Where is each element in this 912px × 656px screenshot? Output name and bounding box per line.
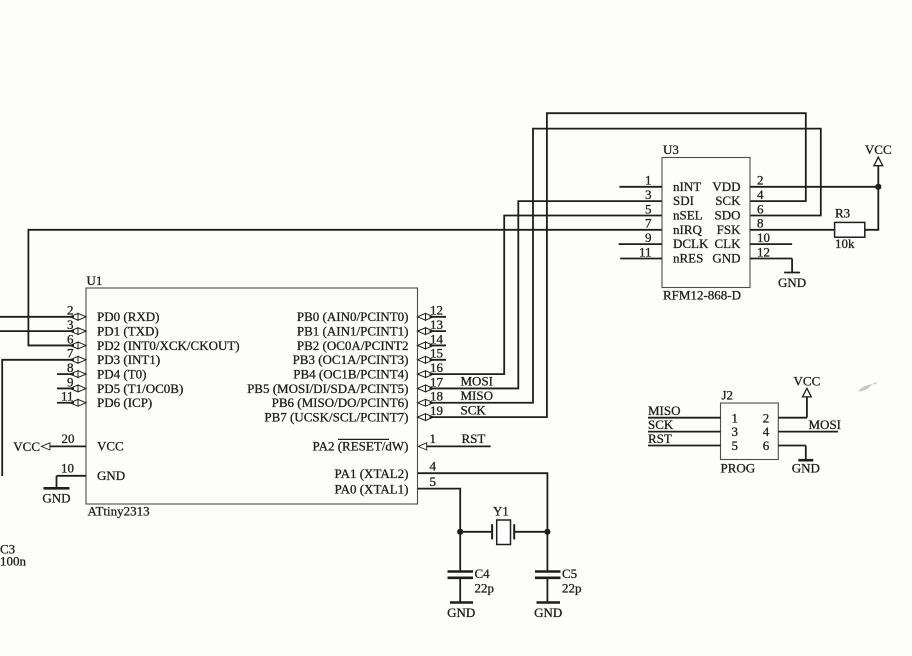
wire R3 to VCC node [865,187,879,230]
svg-text:GND: GND [534,605,562,620]
U1 pin 8 number [67,360,74,375]
U1 pin 18 number [430,389,443,404]
svg-text:PB5 (MOSI/DI/SDA/PCINT5): PB5 (MOSI/DI/SDA/PCINT5) [247,381,408,396]
wire C5 to ground [546,579,548,602]
capacitor C3 reference (cut off at edge) [0,542,15,557]
capacitor C5 bottom plate [535,576,561,579]
svg-text:10: 10 [757,230,770,245]
U1 pin 10 wire [57,475,87,477]
U1 pin 16 IO arrow [418,371,434,378]
svg-text:22p: 22p [562,581,582,596]
U3 pin 3 number [645,187,652,202]
ground symbol below C4 [447,603,475,621]
U1 pin 13 number [430,317,443,332]
svg-text:SDO: SDO [714,207,740,222]
junction dot at VCC node [875,184,881,190]
U1 pin 3 IO arrow [70,328,86,335]
U1 pin 8 IO arrow [70,371,86,378]
capacitor C4 top plate [448,570,474,573]
U1 part value ATtiny2313 [88,504,150,519]
capacitor C5 reference [562,566,577,581]
U1 pin 17 name PB5 [247,381,408,396]
svg-text:nRES: nRES [673,251,703,266]
svg-text:C5: C5 [562,566,577,581]
svg-text:RST: RST [462,431,486,446]
U3 reference label [663,142,679,157]
U1 pin 2 name PD0 [97,309,159,324]
svg-text:3: 3 [645,187,652,202]
svg-text:Y1: Y1 [493,504,509,519]
capacitor C5 value 22p [562,581,582,596]
U1 pin 6 number [67,331,74,346]
svg-text:12: 12 [757,244,770,259]
U1 pin 11 IO arrow [70,399,86,406]
svg-text:17: 17 [430,374,444,389]
U1 pin 12 name PB0 [297,309,409,324]
svg-text:PD0 (RXD): PD0 (RXD) [97,309,159,324]
svg-text:PA0 (XTAL1): PA0 (XTAL1) [335,481,409,496]
svg-text:PA1 (XTAL2): PA1 (XTAL2) [335,466,409,481]
U3 pin 10 number [757,230,770,245]
U3 pin 1 number [645,173,652,188]
wire U1 pin 13 stub [430,330,447,332]
wire U1 pin 12 stub [430,316,447,318]
svg-text:GND: GND [712,251,740,266]
wire C4 to ground [459,579,461,602]
svg-text:U3: U3 [663,142,679,157]
net label MOSI at U1 pin 17 [461,374,494,389]
svg-text:VDD: VDD [712,179,740,194]
svg-text:VCC: VCC [97,439,124,454]
wire U1 pin 3 PD1 to left edge [0,330,74,332]
capacitor C3 value 100n [0,554,27,569]
svg-text:MISO: MISO [648,403,681,418]
svg-text:J2: J2 [722,388,734,403]
svg-text:nIRQ: nIRQ [673,222,703,237]
wire U1 pin 8 stub [57,373,74,375]
U3 pin 9 number [645,230,652,245]
svg-text:MOSI: MOSI [461,374,494,389]
ground symbol at J2 pin 6 [792,446,820,476]
U1 pin 1 number [430,431,437,446]
U1 pin 17 number [430,374,444,389]
wire net RST into J2 pin 5 [648,445,721,447]
U1 pin 7 IO arrow [70,356,86,363]
svg-text:VCC: VCC [794,373,821,388]
net label RST [462,431,486,446]
svg-text:VCC: VCC [865,142,892,157]
U1 pin 9 name PD5 [97,381,183,396]
U1 pin 2 IO arrow [70,313,86,320]
U3 pin 8 number [757,216,764,231]
U1 pin 7 name PD3 [97,352,160,367]
U3 pin 10 name CLK [715,236,742,251]
svg-text:PD1 (TXD): PD1 (TXD) [97,323,159,338]
svg-text:10: 10 [61,461,74,476]
wire U1 pin 15 stub [430,359,447,361]
svg-text:PD5 (T1/OC0B): PD5 (T1/OC0B) [97,381,183,396]
svg-text:GND: GND [97,468,125,483]
wire U3 pin 12 GND [750,258,792,260]
U1 pin 20 wire [50,445,86,447]
U1 pin 9 IO arrow [70,385,86,392]
svg-text:SCK: SCK [648,417,674,432]
svg-text:PD2 (INT0/XCK/CKOUT): PD2 (INT0/XCK/CKOUT) [97,338,240,353]
svg-text:PA2 (RESET/dW): PA2 (RESET/dW) [313,439,409,454]
svg-text:15: 15 [430,346,443,361]
U1 pin 19 IO arrow [418,414,434,421]
wire nIRQ net: U1 pin 6 PD2 up and right to U3 pin 7 [28,230,662,346]
U3 pin 7 number [645,216,652,231]
svg-text:ATtiny2313: ATtiny2313 [88,504,150,519]
wire net nSEL: U1 pin 16 PB4 to U3 pin 5 [430,215,663,374]
svg-text:8: 8 [757,216,764,231]
crystal Y1 body [497,520,511,545]
wire U3 pin 2 VDD to VCC node [750,186,878,188]
U1 pin 19 name PB7 [264,409,408,424]
U1 pin 4 number [430,459,437,474]
svg-text:R3: R3 [835,206,850,221]
U3 pin 1 name nINT [673,179,701,194]
IC U1 ATtiny2313 body [86,288,418,504]
U1 pin 9 number [67,374,74,389]
svg-text:6: 6 [757,201,764,216]
J2 pin 3 number [732,424,739,439]
wire U3 pin 10 CLK stub [750,243,792,245]
wire net MOSI: U1 pin 17 PB5 to U3 pin 3 SDI [430,201,663,388]
svg-text:GND: GND [778,275,806,290]
U1 pin 1 name PA2 [313,439,409,454]
IC U3 RFM12 body [662,158,750,288]
U1 pin 12 number [430,303,443,318]
U3 pin 11 name nRES [673,251,703,266]
U3 pin 2 name VDD [712,179,740,194]
J2 pin 2 number [763,410,770,425]
wire crystal right node down to C5 [546,532,548,571]
U3 pin 7 name nIRQ [673,222,703,237]
U3 pin 3 name SDI [673,193,694,208]
svg-text:22p: 22p [475,581,495,596]
VCC supply arrow at U1 pin 20 [41,443,50,450]
svg-text:20: 20 [62,431,75,446]
U1 pin 4 name PA1 [335,466,409,481]
net label MISO at U1 pin 18 [461,388,494,403]
svg-text:2: 2 [757,173,764,188]
wire left node to crystal plate [460,531,492,533]
crystal Y1 right plate [513,524,515,539]
wire U1 pin 9 stub [57,387,74,389]
U1 pin 15 IO arrow [418,356,434,363]
U1 pin 13 name PB1 [297,323,409,338]
U3 pin 5 number [645,201,652,216]
U1 pin 1 input arrow [418,443,427,450]
svg-text:10k: 10k [835,236,855,251]
U1 pin 10 number [61,461,74,476]
U1 pin 18 IO arrow [418,399,434,406]
U1 pin 20 name VCC [97,439,124,454]
svg-text:4: 4 [763,424,770,439]
svg-text:nINT: nINT [673,179,701,194]
svg-text:2: 2 [763,410,770,425]
U1 pin 12 IO arrow [418,313,434,320]
J2 reference label [722,388,734,403]
svg-text:100n: 100n [0,554,27,569]
U1 pin 15 number [430,346,443,361]
ground symbol at U1 pin 10 [42,476,70,506]
svg-text:GND: GND [792,461,820,476]
svg-text:PB0 (AIN0/PCINT0): PB0 (AIN0/PCINT0) [297,309,409,324]
svg-text:PB1 (AIN1/PCINT1): PB1 (AIN1/PCINT1) [297,323,409,338]
U1 pin 3 number [67,317,74,332]
svg-text:6: 6 [763,438,770,453]
svg-text:VCC: VCC [13,439,40,454]
U1 pin 13 IO arrow [418,328,434,335]
wire J2 pin 2 to VCC [778,417,807,419]
wire net SCK into J2 pin 3 [648,431,721,433]
U3 pin 2 number [757,173,764,188]
U3 pin 12 number [757,244,770,259]
net label MISO at J2 [648,403,681,418]
U3 pin 4 name SCK [715,193,741,208]
wire U1 pin 7 PD3 left and down [2,360,74,476]
U3 pin 12 name GND [712,251,740,266]
U1 pin 5 name PA0 [335,481,409,496]
svg-text:PB4 (OC1B/PCINT4): PB4 (OC1B/PCINT4) [293,366,408,381]
svg-text:MOSI: MOSI [809,417,842,432]
U1 pin 14 IO arrow [418,342,434,349]
U1 pin 7 number [67,346,74,361]
svg-text:SCK: SCK [461,402,487,417]
svg-text:CLK: CLK [715,236,742,251]
svg-text:5: 5 [732,438,739,453]
U3 pin 6 number [757,201,764,216]
U3 pin 8 name FSK [717,222,741,237]
U3 pin 11 number [639,244,652,259]
wire U1 pin 4 XTAL2 right and down to crystal right node [418,473,548,532]
svg-text:13: 13 [430,317,443,332]
svg-text:nSEL: nSEL [673,207,703,222]
svg-text:3: 3 [732,424,739,439]
svg-text:16: 16 [430,360,444,375]
svg-text:GND: GND [42,490,70,505]
svg-text:PB7 (UCSK/SCL/PCINT7): PB7 (UCSK/SCL/PCINT7) [264,409,408,424]
capacitor C5 top plate [535,570,561,573]
U1 pin 6 name PD2 [97,338,240,353]
svg-text:18: 18 [430,389,443,404]
wire U1 pin 2 PD0 to left edge [0,316,74,318]
U1 pin 14 number [430,331,444,346]
net label SCK at J2 [648,417,674,432]
U1 pin 11 name PD6 [97,395,152,410]
resistor R3 value 10k [835,236,855,251]
U1 pin 6 IO arrow [70,342,86,349]
svg-text:PB2 (OC0A/PCINT2: PB2 (OC0A/PCINT2 [297,338,409,353]
svg-text:5: 5 [645,201,652,216]
wire net MOSI from J2 pin 4 [778,431,838,433]
connector J2 body [721,403,779,460]
wire RST stub from U1 pin 1 [427,445,491,447]
svg-text:RFM12-868-D: RFM12-868-D [663,288,741,303]
ground symbol at U3 pin 12 [778,259,806,291]
svg-text:1: 1 [732,410,739,425]
svg-text:PROG: PROG [721,461,756,476]
U1 pin 5 number [430,474,437,489]
wire U1 pin 11 stub [57,402,74,404]
U1 pin 17 IO arrow [418,385,434,392]
svg-text:4: 4 [757,187,764,202]
U3 pin 4 number [757,187,764,202]
svg-text:11: 11 [61,389,74,404]
svg-text:5: 5 [430,474,437,489]
J2 pin 5 number [732,438,739,453]
svg-text:1: 1 [430,431,437,446]
svg-text:11: 11 [639,244,652,259]
U1 reference label [87,273,103,288]
U1 pin 20 number [62,431,75,446]
overline on RESET [338,438,389,440]
U1 pin 19 number [430,403,443,418]
U3 pin 5 name nSEL [673,207,703,222]
wire crystal left node down to C4 [459,532,461,571]
net label SCK at U1 pin 19 [461,402,487,417]
junction node at crystal left [457,529,463,535]
wire J2 pin 6 to ground [778,445,806,447]
wire U3 pin 1 stub [619,186,662,188]
svg-text:14: 14 [430,331,444,346]
VCC net label at U1 pin 20 [13,439,40,454]
svg-text:1: 1 [645,173,652,188]
resistor R3 reference [835,206,850,221]
svg-text:9: 9 [645,230,652,245]
wire U3 pin 9 stub [619,243,662,245]
U3 part value RFM12-868-D [663,288,741,303]
U3 pin 9 name DCLK [673,236,709,251]
svg-text:DCLK: DCLK [673,236,709,251]
wire U1 pin 14 stub [430,344,447,346]
U1 pin 8 name PD4 [97,366,146,381]
wire U1 pin 5 XTAL1 right and down to crystal left node [418,489,461,532]
svg-text:SDI: SDI [673,193,694,208]
net label RST at J2 [648,431,672,446]
U1 pin 16 number [430,360,444,375]
J2 part value PROG [721,461,756,476]
svg-text:4: 4 [430,459,437,474]
U1 pin 10 name GND [97,468,125,483]
svg-text:PD3 (INT1): PD3 (INT1) [97,352,160,367]
capacitor C4 bottom plate [448,576,474,579]
svg-text:PB3 (OC1A/PCINT3): PB3 (OC1A/PCINT3) [293,352,409,367]
J2 pin 4 number [763,424,770,439]
svg-text:19: 19 [430,403,443,418]
svg-text:RST: RST [648,431,672,446]
net label MOSI at J2 [809,417,842,432]
wire U3 pin 8 FSK to R3 [750,229,835,231]
wire net SCK: U1 pin 19 PB7 up over top to U3 pin 4 SCK [430,113,806,417]
J2 pin 6 number [763,438,770,453]
U1 pin 14 name PB2 [297,338,409,353]
svg-text:FSK: FSK [717,222,741,237]
svg-text:U1: U1 [87,273,103,288]
VCC power symbol at J2 [794,373,821,417]
capacitor C4 value 22p [475,581,495,596]
U1 pin 3 name PD1 [97,323,159,338]
svg-text:MISO: MISO [461,388,494,403]
VCC power symbol top right [865,142,892,187]
wire U3 pin 11 stub [620,258,662,260]
ground symbol below C5 [534,603,562,621]
U1 pin 15 name PB3 [293,352,409,367]
U1 pin 2 number [67,303,74,318]
wire net MISO into J2 pin 1 [648,417,721,419]
svg-text:PD6 (ICP): PD6 (ICP) [97,395,152,410]
U1 pin 11 number [61,389,74,404]
svg-text:12: 12 [430,303,443,318]
capacitor C4 reference [475,566,491,581]
wire crystal plate to right node [514,531,547,533]
resistor R3 body [835,222,865,237]
wire net MISO: U1 pin 18 PB6 up over top to U3 pin 6 SDO [430,129,821,403]
crystal Y1 left plate [491,524,493,539]
svg-text:GND: GND [447,605,475,620]
svg-text:PB6 (MISO/DO/PCINT6): PB6 (MISO/DO/PCINT6) [272,395,409,410]
U3 pin 6 name SDO [714,207,740,222]
crystal Y1 reference label [493,504,509,519]
U1 pin 18 name PB6 [272,395,409,410]
scan smudge artifact [858,383,877,392]
U1 pin 16 name PB4 [293,366,408,381]
svg-text:SCK: SCK [715,193,741,208]
J2 pin 1 number [732,410,739,425]
svg-text:7: 7 [645,216,652,231]
junction node at crystal right [544,529,550,535]
svg-text:PD4 (T0): PD4 (T0) [97,366,146,381]
svg-text:C4: C4 [475,566,491,581]
